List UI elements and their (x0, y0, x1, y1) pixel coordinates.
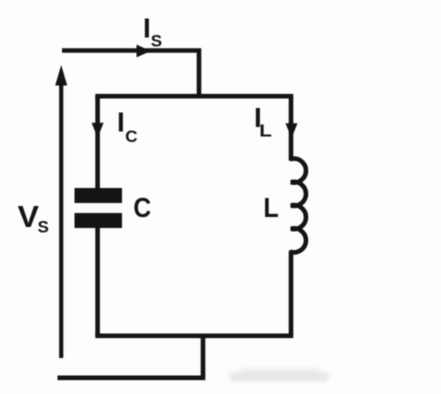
arrowhead I_S current direction (137, 45, 151, 58)
svg-text:I: I (143, 13, 151, 44)
label I_S (143, 13, 162, 51)
svg-text:S: S (38, 218, 49, 237)
inductor L coil (291, 159, 306, 253)
svg-text:I: I (117, 107, 125, 138)
svg-text:S: S (151, 32, 162, 51)
label I_C (117, 107, 138, 147)
wire: inductor branch upper segment (289, 96, 294, 160)
svg-text:V: V (18, 199, 39, 233)
svg-text:L: L (263, 192, 278, 224)
wire: top lead from source terminal to top node (62, 51, 199, 97)
arrowhead I_L current direction (286, 123, 298, 138)
svg-text:C: C (125, 127, 137, 146)
capacitor C plates (75, 188, 123, 228)
wire: bottom side of loop (95, 333, 293, 338)
watermark blob (229, 368, 329, 382)
svg-text:C: C (133, 192, 151, 224)
wire: capacitor branch upper segment (95, 96, 100, 188)
label I_L (254, 102, 272, 141)
label V_S (18, 199, 49, 236)
wire: inductor branch lower segment (289, 252, 294, 336)
svg-text:L: L (259, 121, 272, 141)
wire: capacitor branch lower segment (95, 228, 100, 336)
arrowhead I_C current direction (92, 123, 104, 138)
wire: top side of loop (95, 94, 293, 99)
wire: bottom lead from loop to source terminal (58, 336, 204, 378)
voltage arrow V_S (points up) (55, 65, 67, 358)
